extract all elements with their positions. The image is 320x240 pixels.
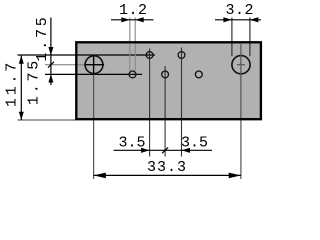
dimension 1.75 middle tick xyxy=(48,62,54,68)
component body border xyxy=(76,42,261,119)
wire bottom pin row extension line xyxy=(45,73,142,75)
dimension 1.2 left arrow xyxy=(121,17,130,22)
svg-text:3.5: 3.5 xyxy=(118,135,145,152)
dimension 3.5 left arrow xyxy=(141,148,150,153)
svg-text:11.7: 11.7 xyxy=(4,60,21,107)
dimension 3.2 right arrow xyxy=(250,17,259,22)
pin 5 xyxy=(195,71,202,78)
dimension 1.75 down arrow xyxy=(48,47,53,55)
svg-text:33.3: 33.3 xyxy=(147,159,187,176)
svg-text:1.75: 1.75 xyxy=(26,58,43,105)
dimension 11.7 up arrow xyxy=(19,56,24,64)
hole right xyxy=(232,56,250,74)
dimension 3.5 right arrow xyxy=(182,148,191,153)
wire center row extension line xyxy=(45,64,105,66)
svg-text:3.5: 3.5 xyxy=(181,135,208,152)
dimension 11.7 line xyxy=(20,56,22,121)
dimension 1.75 up arrow xyxy=(48,74,53,82)
wire top pin row extension line xyxy=(18,54,156,56)
dimension 3.2 left arrow xyxy=(223,17,232,22)
pin 3 xyxy=(162,71,169,78)
hole left xyxy=(85,56,103,74)
wire left hole crosshair horizontal xyxy=(85,64,105,66)
svg-text:1.75: 1.75 xyxy=(34,14,51,61)
dimension 11.7 down arrow xyxy=(19,112,24,120)
dimension 1.2 extension lines xyxy=(129,18,131,72)
pin 4 xyxy=(178,52,185,59)
dimension 1.2 right arrow xyxy=(135,17,144,22)
wire left hole crosshair vertical xyxy=(93,55,95,75)
wire bottom edge extension line xyxy=(18,119,77,121)
dimension 3.2 extension lines xyxy=(231,18,233,57)
dimension 33.3 left arrow xyxy=(94,173,106,179)
component body fill xyxy=(75,41,262,120)
dimension 33.3 line xyxy=(94,174,241,176)
wire pin3 vertical centerline xyxy=(164,66,166,157)
dimension 3.5 line xyxy=(114,149,213,151)
wire right hole vertical centerline xyxy=(240,44,242,179)
dimension 1.2 line xyxy=(111,19,154,21)
dimension 3.2 line xyxy=(215,19,261,21)
svg-text:3.2: 3.2 xyxy=(226,2,255,19)
pin 1 xyxy=(146,52,153,59)
wire pin4 vertical centerline xyxy=(181,48,183,157)
pin 2 xyxy=(129,71,136,78)
svg-text:1.2: 1.2 xyxy=(119,2,148,19)
wire pin1 vertical centerline xyxy=(149,49,151,157)
wire right hole center tick xyxy=(237,64,245,66)
dimension 33.3 right arrow xyxy=(229,173,241,179)
dimension 3.5 middle tick xyxy=(162,147,168,153)
dimension 1.75 upper line xyxy=(50,18,52,86)
wire left hole vertical centerline xyxy=(93,54,95,179)
